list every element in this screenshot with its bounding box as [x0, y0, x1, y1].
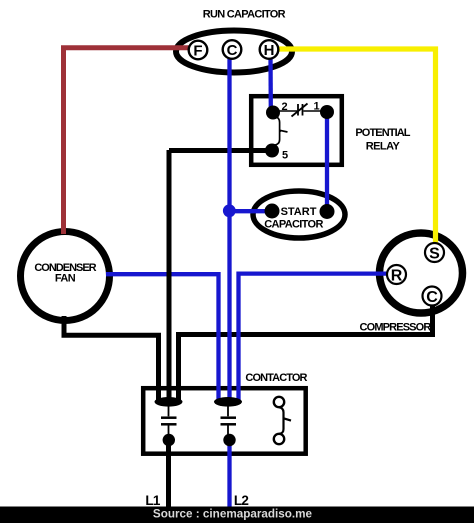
label: COMPRESSOR — [360, 322, 432, 334]
svg-text:RUN CAPACITOR: RUN CAPACITOR — [203, 9, 286, 21]
svg-text:S: S — [429, 246, 440, 263]
contactor coil symbol — [274, 397, 291, 444]
terminal C of run capacitor — [223, 40, 242, 59]
svg-text:C: C — [227, 42, 238, 59]
svg-text:F: F — [193, 43, 202, 60]
wire: blue run capacitor C down to contactor — [227, 56, 231, 400]
wire: blue L2 from contactor to bottom — [227, 440, 231, 511]
terminal F of run capacitor — [189, 41, 208, 60]
relay terminal 2 — [266, 101, 288, 120]
svg-text:Source : cinemaparadiso.me: Source : cinemaparadiso.me — [153, 508, 313, 521]
svg-text:POTENTIAL: POTENTIAL — [355, 127, 410, 139]
relay contact line terminal 2 to 1 — [273, 110, 327, 112]
compressor motor body — [380, 233, 463, 313]
condenser fan motor body — [21, 232, 110, 321]
label: POTENTIAL RELAY — [355, 127, 410, 153]
wire: black riser from relay terminal 5 down into contactor (drawn over blue) — [167, 150, 172, 400]
wire: blue run capacitor H down to relay terminal 2 — [268, 56, 273, 109]
compressor terminal S — [425, 243, 444, 263]
svg-text:H: H — [264, 42, 275, 59]
label: CONDENSER FAN — [34, 262, 96, 285]
wire: black compressor C terminal down, left, down into contactor — [179, 302, 433, 400]
label: L1 — [145, 493, 160, 508]
svg-text:L1: L1 — [145, 493, 160, 508]
wire: blue condenser fan right, down into contactor — [106, 274, 219, 400]
relay NC contact: capacitor plates with slash — [292, 104, 308, 117]
relay terminal 1 — [313, 101, 334, 120]
compressor terminal R — [387, 265, 406, 285]
terminal H of run capacitor — [260, 40, 279, 59]
label: CONTACTOR — [245, 372, 307, 384]
caption bar — [0, 507, 474, 523]
start capacitor body — [253, 191, 345, 238]
contactor right pole contact — [214, 397, 242, 446]
relay terminal 5 — [265, 144, 288, 162]
label: START CAPACITOR — [264, 206, 323, 231]
junction: blue node on run capacitor C line — [223, 204, 236, 217]
run capacitor body — [176, 31, 292, 73]
wire: blue compressor R left, down into contactor — [239, 274, 391, 400]
relay coil brace between terminals 2 and 5 — [273, 116, 288, 146]
label: RUN CAPACITOR — [203, 9, 286, 21]
svg-text:L2: L2 — [234, 493, 248, 508]
svg-text:FAN: FAN — [55, 273, 76, 285]
svg-text:RELAY: RELAY — [366, 141, 401, 153]
svg-text:5: 5 — [282, 150, 288, 162]
wire: black from relay terminal 5 left to vertical riser (y=150) — [169, 148, 266, 153]
contactor box — [143, 388, 306, 454]
wire: blue junction to start capacitor left terminal — [230, 209, 271, 213]
wire: blue relay terminal 1 down to start capacitor right terminal — [325, 114, 329, 208]
wire: red from run capacitor F left and down to condenser fan — [64, 48, 195, 234]
svg-text:1: 1 — [313, 101, 319, 113]
compressor terminal C — [423, 287, 442, 307]
label: L2 — [234, 493, 248, 508]
start capacitor right terminal — [320, 204, 335, 219]
svg-text:START: START — [281, 206, 317, 218]
wire: black L1 from contactor to bottom — [166, 440, 171, 511]
wire: yellow from run capacitor H right and down to compressor S — [276, 49, 436, 245]
svg-text:2: 2 — [281, 101, 287, 113]
svg-text:C: C — [426, 289, 438, 306]
svg-text:CONTACTOR: CONTACTOR — [245, 372, 307, 384]
wire: black condenser fan bottom down, right, down into contactor — [64, 316, 159, 400]
svg-text:R: R — [391, 268, 403, 285]
potential relay box — [251, 96, 342, 165]
start capacitor left terminal — [265, 204, 280, 219]
svg-text:COMPRESSOR: COMPRESSOR — [360, 322, 432, 334]
contactor left pole contact — [155, 397, 183, 446]
svg-text:CAPACITOR: CAPACITOR — [264, 219, 323, 231]
